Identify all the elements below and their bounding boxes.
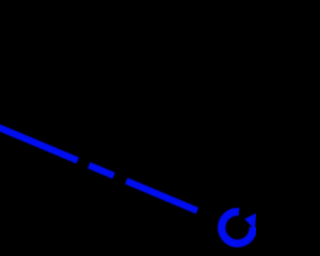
node A: arrowhead xyxy=(246,215,255,228)
wire: short dash segment B xyxy=(89,165,114,175)
wire: long dash segment C xyxy=(126,181,197,211)
node A: circular arrow arc xyxy=(222,212,254,244)
wire: long dash segment A (enters from left edge) xyxy=(0,123,78,161)
